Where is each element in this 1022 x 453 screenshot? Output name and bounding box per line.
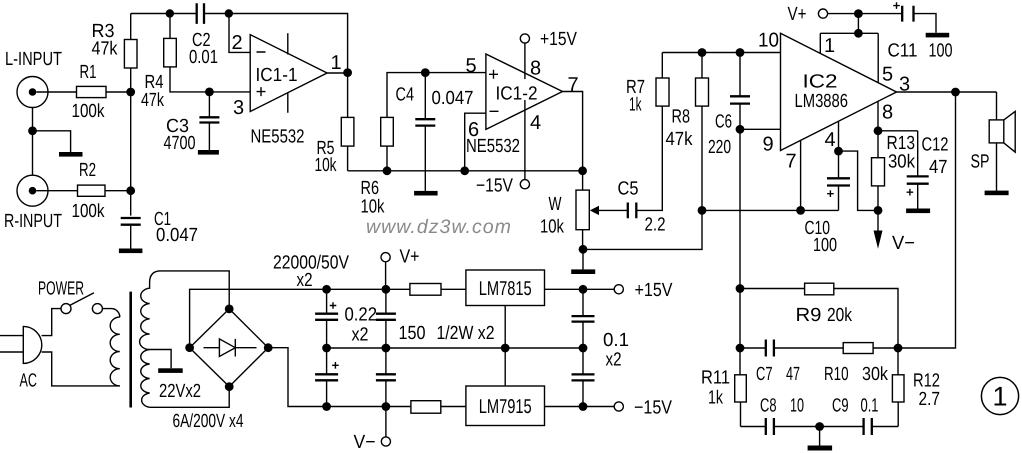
wire +15V output: [545, 288, 615, 290]
svg-text:100: 100: [813, 235, 837, 256]
svg-text:x2: x2: [352, 325, 369, 346]
svg-text:V−: V−: [354, 432, 376, 453]
ground C1: [119, 249, 142, 254]
svg-text:1k: 1k: [708, 388, 723, 409]
svg-text:7: 7: [786, 151, 797, 173]
svg-text:1: 1: [331, 52, 342, 74]
power stub pin8: [524, 43, 526, 79]
svg-text:1: 1: [992, 382, 1007, 412]
svg-text:47k: 47k: [666, 129, 693, 150]
svg-text:10k: 10k: [540, 217, 564, 238]
resistor R4: [141, 14, 209, 112]
resistor 150 upper: [410, 284, 466, 296]
node C3 junction: [205, 88, 214, 97]
wire pin1 out: [327, 72, 348, 74]
node R2 junction: [126, 186, 135, 195]
svg-text:R9: R9: [796, 305, 822, 326]
switch POWER: [38, 279, 102, 314]
capacitor C6: [708, 53, 750, 159]
svg-text:1k: 1k: [629, 95, 642, 116]
wire R13 top to C12: [878, 130, 918, 132]
terminal +15V IC1-2: [520, 29, 577, 50]
node R13 top: [874, 126, 883, 135]
node +15V: [579, 285, 588, 294]
svg-text:C6: C6: [715, 112, 732, 133]
svg-text:220: 220: [708, 137, 731, 158]
node C6 top: [736, 48, 745, 57]
svg-text:+15V: +15V: [635, 280, 673, 301]
svg-text:R1: R1: [80, 62, 97, 83]
wire plug to primary bottom: [42, 352, 120, 386]
terminal -15V: [614, 398, 672, 419]
capacitor 01 lower: [572, 348, 595, 407]
svg-text:0.01: 0.01: [189, 47, 218, 68]
svg-text:10: 10: [790, 396, 804, 417]
transformer primary winding: [110, 317, 120, 386]
svg-text:20k: 20k: [827, 305, 852, 326]
transformer core: [129, 292, 132, 408]
wire node to pin3: [209, 91, 250, 93]
wire C6 column down: [739, 129, 741, 374]
wire pin4 to Vminus node: [839, 151, 879, 210]
resistor R13: [872, 131, 916, 211]
svg-text:V+: V+: [788, 4, 807, 25]
capacitor C2: [189, 3, 218, 68]
capacitor C3: [164, 92, 220, 154]
wire W bottom: [582, 230, 584, 250]
node R8 top: [698, 48, 707, 57]
node vminus rail c2: [382, 402, 391, 411]
ground feedback: [808, 427, 833, 451]
capacitor C7: [740, 340, 843, 386]
wire secondary bottom to bridge: [150, 387, 230, 408]
resistor R2: [72, 160, 106, 222]
op-amp IC1-1: [232, 32, 342, 148]
svg-text:L-INPUT: L-INPUT: [5, 49, 62, 70]
diode in bridge: [204, 339, 257, 357]
svg-text:5: 5: [466, 55, 477, 77]
wire center column node to C1: [130, 92, 132, 216]
svg-text:30k: 30k: [862, 364, 888, 385]
pin1 stub: [819, 33, 821, 53]
svg-text:47: 47: [929, 157, 948, 178]
node R9 left: [736, 284, 745, 293]
svg-text:10k: 10k: [361, 197, 385, 218]
connector L-INPUT jack: [5, 49, 62, 108]
svg-text:2.7: 2.7: [919, 389, 941, 410]
ground C4: [414, 191, 438, 196]
node C2 left: [166, 9, 174, 17]
svg-text:8: 8: [882, 102, 893, 124]
regulator LM7815: [466, 270, 545, 306]
capacitor C8: [741, 396, 820, 436]
capacitor C11: [888, 2, 953, 61]
node pin6: [460, 166, 469, 175]
ground speaker: [985, 191, 1009, 196]
capacitor 022 upper: [376, 289, 396, 348]
resistor R12: [892, 348, 940, 427]
resistor R10: [824, 343, 898, 385]
power stubs IC1-1: [287, 33, 289, 113]
resistor R5: [315, 73, 354, 176]
node pin7: [796, 206, 805, 215]
svg-text:6: 6: [468, 119, 479, 141]
svg-text:150: 150: [399, 323, 426, 344]
svg-text:4: 4: [530, 112, 541, 134]
connector R-INPUT jack: [4, 175, 62, 232]
svg-text:10: 10: [758, 30, 779, 52]
svg-text:C7: C7: [756, 364, 773, 385]
wire plug to switch: [42, 309, 61, 336]
wire feedback row: [348, 170, 583, 172]
node pin7 down: [578, 166, 587, 175]
svg-text:100k: 100k: [72, 201, 105, 222]
wire R jack to R2: [36, 190, 77, 192]
capacitor C4: [396, 73, 474, 191]
svg-text:x2: x2: [606, 350, 622, 371]
svg-text:R11: R11: [701, 368, 730, 389]
svg-text:V−: V−: [892, 233, 915, 254]
capacitor 022 lower: [376, 348, 396, 407]
svg-text:5: 5: [882, 64, 893, 86]
wire jack column with ground stub: [33, 108, 71, 176]
svg-text:2.2: 2.2: [645, 215, 666, 236]
svg-text:www.dz3w.com: www.dz3w.com: [366, 216, 512, 238]
regulator LM7915: [466, 386, 545, 426]
svg-text:+15V: +15V: [540, 29, 577, 50]
node pin4: [834, 147, 843, 156]
node bridge left: [185, 343, 194, 352]
terminal V- PSU: [354, 407, 391, 453]
wire top rail to pin10: [662, 52, 780, 54]
svg-text:R2: R2: [79, 160, 96, 181]
svg-text:C12: C12: [922, 135, 949, 156]
svg-text:C11: C11: [888, 41, 918, 62]
pin7 stub: [800, 140, 802, 210]
svg-text:22Vx2: 22Vx2: [159, 381, 201, 402]
ground C11: [926, 33, 950, 38]
resistor R8: [583, 53, 709, 250]
svg-text:7: 7: [568, 74, 579, 96]
AC plug: [0, 326, 42, 391]
node R1-R3 junction: [126, 88, 135, 97]
node bridge bottom: [225, 382, 234, 391]
capacitor C12: [907, 131, 949, 209]
svg-text:C5: C5: [618, 179, 639, 200]
node C4 top: [421, 68, 430, 77]
node C2 right: [225, 9, 233, 17]
svg-text:LM7815: LM7815: [479, 278, 532, 300]
resistor 150 lower: [411, 401, 466, 414]
wire pin9: [740, 128, 781, 130]
svg-text:IC1-2: IC1-2: [496, 84, 538, 105]
svg-text:4: 4: [825, 129, 836, 151]
node rail C22000 top: [322, 285, 331, 294]
ground W: [571, 249, 595, 274]
svg-text:IC1-1: IC1-1: [256, 65, 298, 86]
wire -15V output: [545, 406, 615, 408]
svg-text:C8: C8: [760, 396, 777, 417]
svg-text:IC2: IC2: [803, 72, 838, 93]
node pin9: [736, 125, 745, 134]
wire bridge left to Vplus rail: [190, 289, 410, 347]
svg-text:47k: 47k: [92, 39, 118, 60]
power stub pin4: [524, 100, 526, 180]
svg-text:LM3886: LM3886: [795, 91, 849, 112]
wire V+ to pins 1 5: [820, 14, 878, 34]
svg-text:9: 9: [763, 134, 774, 156]
svg-text:0.047: 0.047: [432, 88, 474, 109]
node feedback right: [894, 344, 903, 353]
node mid rail c2: [382, 344, 391, 353]
wire pin2: [229, 14, 250, 53]
bridge rectifier diamond: [190, 309, 269, 387]
node IC1-1 output: [343, 68, 352, 77]
svg-text:C9: C9: [832, 396, 849, 417]
resistor R11: [701, 368, 746, 427]
svg-text:10k: 10k: [315, 155, 337, 176]
potentiometer W: [540, 190, 628, 237]
pin5 stub: [877, 33, 879, 82]
wire secondary top to bridge: [161, 271, 230, 309]
wire V+ rail: [828, 13, 903, 15]
node vminus rail c1: [322, 402, 331, 411]
svg-text:AC: AC: [20, 371, 38, 392]
terminal +15V: [614, 280, 673, 301]
op-amp IC1-2: [466, 54, 579, 157]
svg-text:LM7915: LM7915: [479, 396, 532, 418]
svg-text:2: 2: [232, 32, 243, 54]
page number circle 1: [981, 377, 1018, 414]
arrow V- supply: [874, 210, 916, 254]
svg-text:100: 100: [929, 41, 953, 62]
node mid rail 01: [579, 344, 588, 353]
wire regulators common: [504, 306, 506, 387]
node bridge right: [264, 343, 273, 352]
node Vminus: [874, 206, 883, 215]
wire pin6: [465, 113, 486, 171]
resistor R6: [361, 73, 486, 218]
svg-text:6A/200V x4: 6A/200V x4: [173, 411, 244, 432]
svg-text:0.1: 0.1: [861, 396, 879, 417]
capacitor C1: [121, 209, 198, 249]
ground center tap: [158, 368, 183, 373]
terminal V+ PSU: [381, 247, 420, 290]
svg-text:1: 1: [824, 35, 835, 57]
svg-text:−15V: −15V: [476, 176, 513, 197]
node R8-W junction: [698, 206, 707, 215]
svg-text:−15V: −15V: [634, 398, 672, 419]
wire R8 node to pin7 node: [702, 209, 801, 211]
svg-text:3: 3: [233, 97, 244, 119]
svg-text:C4: C4: [396, 85, 415, 106]
pin4 stub: [838, 121, 840, 151]
svg-text:SP: SP: [971, 152, 990, 173]
wire center tap: [150, 350, 172, 369]
ground input stub: [59, 152, 83, 157]
svg-text:47: 47: [786, 364, 800, 385]
node rail 022 top: [382, 285, 391, 294]
svg-text:1/2W x2: 1/2W x2: [437, 323, 495, 344]
wire top feedback: [131, 14, 348, 73]
svg-text:47k: 47k: [141, 90, 164, 111]
svg-text:4700: 4700: [164, 133, 196, 154]
node mid rail reg: [501, 344, 510, 353]
svg-text:POWER: POWER: [38, 279, 84, 300]
terminal V+: [788, 4, 828, 25]
ground C3: [198, 150, 219, 155]
terminal -15V IC1-2: [476, 176, 530, 197]
node jack column junction: [28, 126, 37, 135]
svg-text:30k: 30k: [888, 152, 915, 173]
ground C12: [906, 209, 930, 214]
capacitor C5: [618, 179, 666, 236]
node R6 bottom: [383, 166, 392, 175]
node V+: [854, 9, 863, 18]
wire switch to primary: [102, 309, 119, 318]
resistor R1: [72, 62, 107, 122]
resistor R7: [626, 53, 669, 116]
svg-text:0.047: 0.047: [156, 225, 198, 246]
svg-text:R-INPUT: R-INPUT: [4, 211, 62, 232]
capacitor C10: [805, 151, 851, 256]
svg-text:0.1: 0.1: [603, 330, 629, 351]
svg-text:R10: R10: [824, 364, 849, 385]
wire bridge right to Vminus rail: [268, 348, 411, 407]
op-amp IC2 LM3886: [758, 30, 910, 173]
svg-text:R8: R8: [672, 107, 691, 128]
resistor R3: [92, 14, 138, 93]
wire C5 to R7: [636, 106, 662, 210]
capacitor C9: [820, 396, 899, 436]
wire pin7 output down: [563, 92, 583, 191]
svg-text:V+: V+: [400, 247, 420, 268]
svg-text:8: 8: [530, 58, 541, 80]
node IC2 output: [951, 88, 960, 97]
wire IC2 output: [897, 91, 997, 93]
capacitor 01 upper: [572, 289, 595, 348]
svg-text:100k: 100k: [72, 101, 105, 122]
svg-text:x2: x2: [297, 270, 313, 291]
wire pin7 node to C10: [801, 209, 839, 211]
svg-text:NE5532: NE5532: [251, 127, 305, 148]
speaker SP: [971, 92, 1016, 191]
node pin15 row: [854, 29, 863, 38]
capacitor 22000 upper: [315, 289, 338, 348]
svg-text:0.22: 0.22: [345, 305, 378, 326]
resistor R9: [740, 283, 898, 348]
node C7 row left: [736, 344, 745, 353]
node -15V: [579, 402, 588, 411]
pin8 stub: [877, 101, 879, 131]
svg-text:W: W: [549, 194, 562, 215]
transformer secondary top winding: [140, 271, 161, 350]
node mid rail c1: [322, 344, 331, 353]
capacitor 22000 lower: [315, 348, 339, 407]
node W bottom: [579, 245, 588, 254]
wire R2 to node: [105, 190, 131, 192]
wire L jack to R1: [36, 91, 76, 93]
node bridge top: [225, 305, 234, 314]
wire output feedback: [898, 92, 956, 348]
wire mid rail: [327, 347, 583, 349]
transformer secondary bottom winding: [141, 350, 150, 408]
wire R1 to node: [106, 91, 131, 93]
node ground bottom: [815, 422, 824, 431]
